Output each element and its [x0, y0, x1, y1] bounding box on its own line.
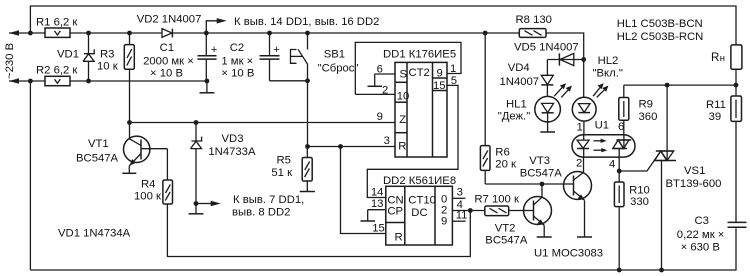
node C1 bottom row2: [205, 79, 210, 84]
capacitor C3: [677, 215, 747, 254]
capacitor C1: [143, 33, 218, 81]
svg-text:"Сброс": "Сброс": [318, 63, 359, 75]
svg-text:1N4007: 1N4007: [500, 76, 540, 88]
svg-text:9: 9: [437, 68, 443, 80]
terminal arrow line2: [9, 78, 45, 83]
svg-text:BC547A: BC547A: [76, 153, 119, 165]
LED HL2: [572, 55, 623, 135]
svg-text:BC547A: BC547A: [485, 234, 528, 246]
node VD5 HL2: [581, 57, 586, 62]
svg-text:4: 4: [609, 159, 615, 171]
ground below R5: [300, 181, 315, 192]
svg-text:U1 MOC3083: U1 MOC3083: [534, 248, 603, 260]
node Rn bottom: [734, 83, 739, 88]
wire top mains: [30, 6, 736, 45]
svg-text:2: 2: [576, 157, 582, 169]
svg-text:н: н: [720, 53, 725, 64]
resistor R6: [480, 33, 516, 184]
triac VS1: [619, 85, 721, 270]
svg-text:BC547A: BC547A: [520, 167, 563, 179]
wire row2: [70, 80, 207, 82]
svg-text:Z: Z: [399, 114, 406, 126]
wire U1 pin4 down: [618, 157, 620, 182]
DD2 pin14 label: [371, 187, 384, 199]
svg-text:R3: R3: [100, 49, 114, 61]
svg-text:~230 В: ~230 В: [4, 43, 16, 79]
DD2 pin11 stub: [452, 210, 467, 222]
diode VD5: [514, 42, 584, 66]
svg-text:1N4733A: 1N4733A: [208, 146, 256, 158]
svg-text:R11: R11: [706, 99, 726, 111]
wire row1 to HL2 branch: [546, 33, 584, 60]
svg-text:DD1 К176ИЕ5: DD1 К176ИЕ5: [383, 49, 456, 61]
resistor R5: [271, 147, 312, 182]
resistor R8: [516, 14, 552, 38]
node collector: [127, 120, 132, 125]
svg-text:100 к: 100 к: [134, 191, 161, 203]
svg-text:VD3: VD3: [222, 133, 244, 145]
svg-text:1 мк ×: 1 мк ×: [221, 55, 253, 67]
resistor R10: [614, 182, 649, 270]
svg-text:выв. 8 DD2: выв. 8 DD2: [232, 206, 290, 218]
wire VT1 base to R4: [166, 149, 168, 180]
ground below C1: [200, 81, 215, 93]
svg-text:"Вкл.": "Вкл.": [593, 67, 623, 79]
svg-text:VT2: VT2: [495, 223, 516, 235]
resistor R4: [134, 179, 173, 205]
svg-text:+: +: [273, 44, 280, 56]
node R5 top: [305, 144, 310, 149]
svg-text:15: 15: [433, 80, 446, 92]
diode VD2: [137, 14, 202, 38]
svg-text:3: 3: [457, 187, 463, 199]
svg-text:VT3: VT3: [529, 155, 550, 167]
ground HL1 cathode: [540, 122, 555, 132]
svg-text:14: 14: [371, 187, 384, 199]
node pin4 gate: [617, 169, 622, 174]
svg-text:13: 13: [371, 198, 384, 210]
resistor R7: [474, 194, 523, 216]
node VT2 collector: [540, 182, 545, 187]
svg-text:360: 360: [639, 111, 658, 123]
svg-text:C3: C3: [695, 215, 709, 227]
svg-text:CT2: CT2: [409, 67, 430, 79]
resistor R9: [619, 85, 658, 135]
wire R9 top line: [624, 84, 736, 86]
resistor R1: [36, 17, 77, 38]
svg-text:R2 6,2 к: R2 6,2 к: [36, 65, 77, 77]
svg-text:5: 5: [451, 75, 457, 87]
wire bottom mains: [30, 228, 736, 270]
svg-text:330: 330: [630, 196, 649, 208]
zener VD3: [191, 123, 256, 204]
svg-text:VD2 1N4007: VD2 1N4007: [137, 14, 202, 26]
node VD1 bottom: [86, 79, 91, 84]
wire R6 to VT3 base: [485, 183, 563, 185]
resistor R3: [97, 33, 134, 73]
node R3 top: [127, 31, 132, 36]
node VD3 top: [194, 120, 199, 125]
ground below VD3: [189, 204, 204, 214]
transistor VT3: [520, 155, 592, 200]
svg-text:C1: C1: [160, 42, 174, 54]
svg-text:R4: R4: [141, 179, 155, 191]
resistor Rn load: [711, 45, 742, 85]
node VD1 top: [86, 31, 91, 36]
svg-text:HL1 C503B-BCN: HL1 C503B-BCN: [617, 18, 703, 30]
svg-text:+: +: [211, 44, 218, 56]
DD2 pin13 stub with ground: [361, 198, 386, 221]
wire to DD2 pin15: [341, 147, 386, 234]
ground VT2 emitter: [537, 225, 552, 237]
svg-text:HL1: HL1: [506, 98, 527, 110]
svg-text:BT139-600: BT139-600: [666, 178, 722, 190]
DD1 pin5 wire to DD2 pin14: [367, 75, 458, 198]
node pin4: [468, 208, 473, 213]
svg-text:DD2 К561ИЕ8: DD2 К561ИЕ8: [383, 175, 456, 187]
label U1 MOC3083: [534, 248, 603, 260]
terminal arrow line1: [9, 30, 45, 35]
svg-text:C2: C2: [230, 42, 244, 54]
svg-text:3: 3: [384, 135, 390, 147]
svg-text:× 10 В: × 10 В: [150, 68, 183, 80]
svg-text:R: R: [398, 141, 406, 153]
svg-text:VS1: VS1: [684, 165, 705, 177]
svg-text:1: 1: [450, 63, 456, 75]
LED HL1: [498, 83, 572, 122]
diode VD4: [500, 60, 554, 97]
DD1 pin3 label: [384, 135, 390, 147]
svg-text:× 10 В: × 10 В: [221, 68, 254, 80]
svg-text:R7 100 к: R7 100 к: [474, 194, 519, 206]
svg-text:HL2: HL2: [598, 55, 619, 67]
svg-text:9: 9: [441, 216, 447, 228]
transistor VT1: [76, 123, 167, 166]
oscillator line VT1 collector to DD1 Z: [130, 122, 396, 124]
node SB1 line: [305, 78, 310, 83]
svg-text:HL2 C503B-RCN: HL2 C503B-RCN: [617, 31, 704, 43]
node row1 left: [28, 31, 33, 36]
svg-text:2000 мк ×: 2000 мк ×: [143, 55, 194, 67]
svg-text:VD1 1N4734A: VD1 1N4734A: [58, 228, 131, 240]
DD1 pin2 wire: [355, 85, 395, 97]
DD1 pin6 stub with ground: [368, 63, 396, 86]
svg-text:0,22 мк ×: 0,22 мк ×: [677, 229, 725, 241]
node VS1 bottom: [659, 268, 664, 273]
wire C2 to SB1 bottom: [270, 80, 308, 82]
svg-text:CP: CP: [387, 206, 403, 218]
svg-text:R9: R9: [639, 99, 653, 111]
reset line R: [308, 146, 396, 148]
arrow to pins 14 DD1 16 DD2: [206, 16, 379, 33]
DD1 feedback wire pin1 to pin2: [355, 42, 461, 94]
svg-text:SB1: SB1: [324, 49, 345, 61]
node C2 top: [267, 31, 272, 36]
svg-text:VD1: VD1: [57, 49, 79, 61]
wire R3 to collector node: [129, 69, 131, 122]
svg-text:51 к: 51 к: [271, 167, 292, 179]
svg-text:"Деж.": "Деж.": [498, 110, 531, 122]
node triac top: [665, 83, 670, 88]
svg-text:20 к: 20 к: [495, 159, 516, 171]
svg-text:К выв. 14 DD1, выв. 16 DD2: К выв. 14 DD1, выв. 16 DD2: [234, 16, 379, 28]
node R6 tap row1: [483, 31, 488, 36]
svg-text:U1: U1: [595, 120, 609, 132]
svg-text:× 630 В: × 630 В: [681, 241, 720, 253]
svg-text:R: R: [395, 232, 403, 244]
capacitor C2: [221, 33, 280, 81]
pushbutton SB1: [291, 33, 359, 147]
transistor VT2: [485, 184, 551, 246]
node SB1 top: [305, 31, 310, 36]
svg-text:К выв. 7 DD1,: К выв. 7 DD1,: [233, 194, 304, 206]
svg-text:DC: DC: [411, 207, 427, 219]
wire left down to bottom: [29, 81, 31, 270]
DD2 pin4 wire: [452, 199, 484, 211]
optocoupler U1: [572, 120, 635, 171]
DD2 pin3 stub: [452, 187, 465, 199]
arrow to pins 7 DD1 8 DD2: [196, 194, 304, 219]
svg-text:11: 11: [456, 210, 468, 222]
svg-text:39: 39: [709, 111, 722, 123]
zener VD1: [57, 33, 94, 81]
label VD1 1N4734A: [58, 228, 131, 240]
labels HL types: [617, 18, 704, 43]
svg-text:R8 130: R8 130: [516, 14, 552, 26]
svg-text:1: 1: [577, 121, 583, 133]
svg-text:10: 10: [397, 91, 410, 103]
wire row1: [70, 32, 519, 34]
IC DD2 K561IE8: [383, 175, 456, 245]
svg-text:6: 6: [377, 63, 383, 75]
wire R4 down and across: [167, 204, 470, 257]
resistor R2: [36, 65, 77, 86]
IC DD1 K176IE5: [383, 49, 456, 158]
svg-text:R1 6,2 к: R1 6,2 к: [36, 17, 77, 29]
ground VT3 emitter: [577, 200, 592, 237]
svg-text:9: 9: [377, 111, 383, 123]
node C1 top: [204, 31, 209, 36]
resistor R11: [706, 85, 742, 222]
svg-text:VD4: VD4: [508, 62, 530, 74]
label ~230 В: [4, 43, 16, 79]
svg-text:VD5 1N4007: VD5 1N4007: [514, 42, 579, 54]
node row2 left: [28, 79, 33, 84]
node R10 bottom: [617, 268, 622, 273]
svg-text:10 к: 10 к: [97, 61, 118, 73]
DD1 pin9 label: [377, 111, 383, 123]
svg-text:R10: R10: [629, 184, 650, 196]
svg-text:2: 2: [382, 85, 388, 97]
svg-text:VT1: VT1: [88, 138, 109, 150]
svg-text:R: R: [711, 52, 719, 64]
svg-text:R5: R5: [277, 155, 291, 167]
DD2 pin15 label: [372, 223, 385, 235]
svg-text:S: S: [400, 69, 408, 81]
ground VT1 emitter: [122, 166, 136, 174]
svg-text:R6: R6: [495, 147, 509, 159]
svg-text:CT10: CT10: [408, 195, 436, 207]
node DD2 R branch: [338, 144, 343, 149]
svg-text:15: 15: [372, 223, 385, 235]
node VD3 bottom: [194, 201, 199, 206]
